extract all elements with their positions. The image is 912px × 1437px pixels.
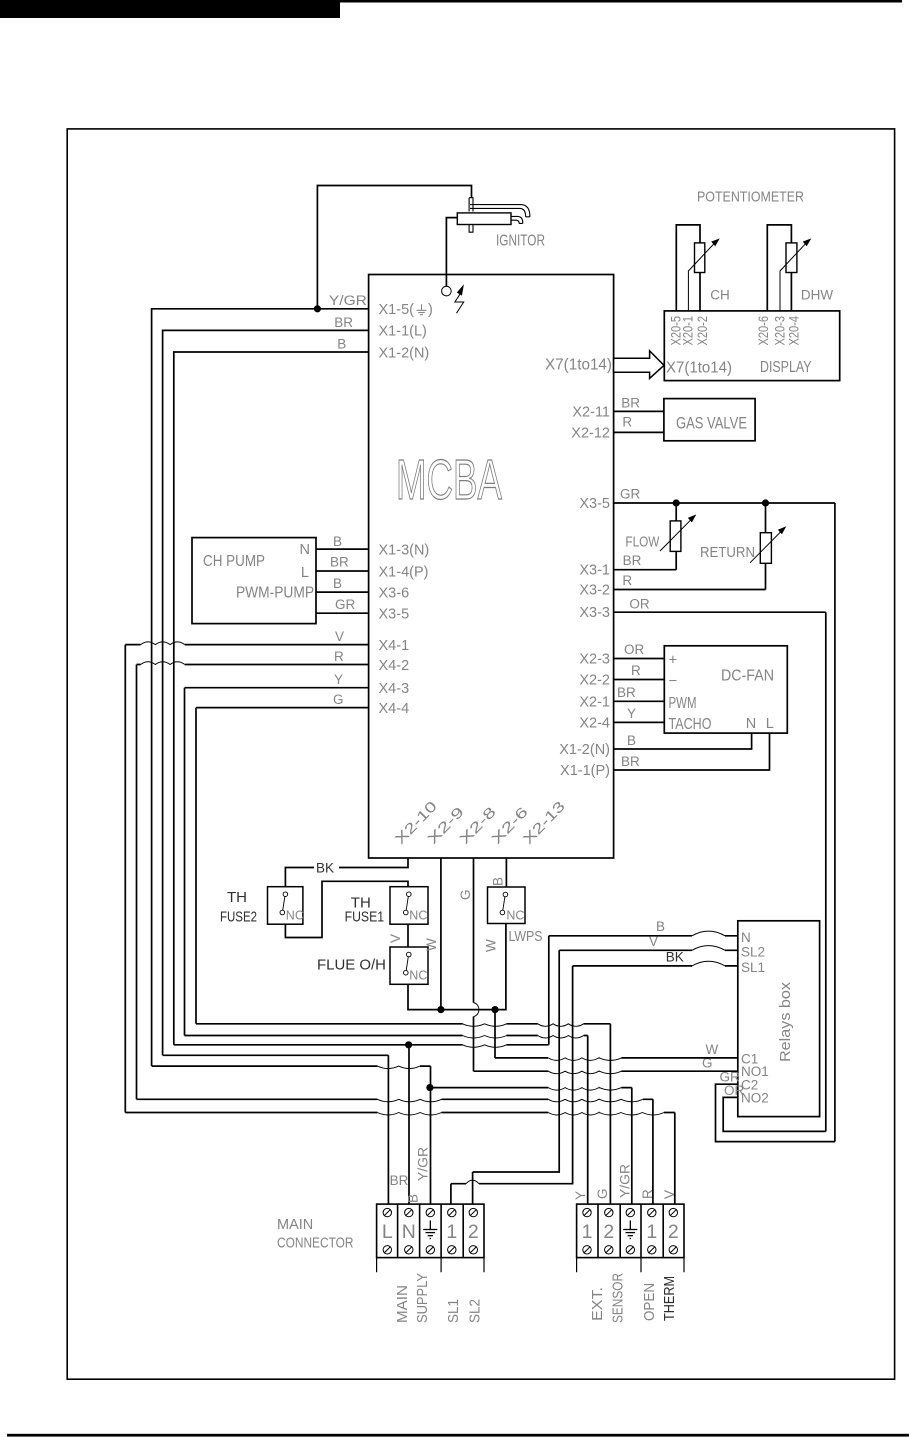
svg-text:X20-4: X20-4 — [787, 316, 802, 346]
svg-text:X4-2: X4-2 — [379, 658, 410, 674]
svg-text:Y/GR: Y/GR — [329, 293, 367, 308]
wire X2-9 W — [440, 858, 442, 1010]
ignitor right tube — [511, 216, 523, 223]
svg-text:X2-4: X2-4 — [579, 715, 610, 731]
wire X1-1 BR — [163, 330, 369, 1055]
svg-text:BR: BR — [330, 555, 349, 570]
wire pump GR — [316, 612, 369, 614]
wire X2-2 R — [614, 679, 665, 681]
svg-text:B: B — [337, 336, 346, 351]
label SENSOR (rotated) — [610, 1273, 627, 1323]
switch LWPS — [488, 887, 526, 924]
GAS VALVE box — [664, 399, 755, 441]
svg-text:X2-11: X2-11 — [572, 404, 610, 420]
EXT/OPEN block outline — [577, 1204, 684, 1258]
svg-text:Y/GR: Y/GR — [416, 1147, 431, 1181]
svg-text:R: R — [631, 663, 641, 678]
wire CH pot loop — [676, 225, 700, 311]
wire R vertical — [136, 665, 138, 1100]
svg-text:RETURN: RETURN — [700, 544, 755, 561]
svg-text:X3-6: X3-6 — [379, 585, 410, 601]
terminal screw — [583, 1208, 591, 1216]
svg-text:Y: Y — [627, 706, 636, 721]
svg-text:V: V — [662, 1190, 677, 1199]
svg-text:1: 1 — [582, 1221, 593, 1243]
wire C2 GR return — [716, 1084, 835, 1141]
wire G bottom run — [196, 1023, 610, 1025]
wire FLOW sensor top — [675, 503, 677, 521]
label V (rotated) — [388, 934, 403, 943]
svg-text:X2-3: X2-3 — [579, 652, 610, 668]
node Y/GR junction — [314, 305, 321, 312]
svg-text:BR: BR — [621, 754, 640, 769]
svg-text:BK: BK — [316, 860, 334, 875]
svg-text:B: B — [333, 576, 342, 591]
label Y/GR (rotated) — [416, 1147, 431, 1181]
terminal screw — [648, 1246, 656, 1254]
ignitor electrode pin bar — [469, 198, 473, 233]
pin label X20-5 (rotated) — [669, 316, 684, 346]
svg-text:NC: NC — [409, 969, 427, 983]
wire relays SL2 / V — [559, 949, 738, 951]
wire FUSE1 to FLUE O/H — [407, 924, 409, 947]
wire C1 W branch — [494, 1010, 496, 1058]
svg-text:NC: NC — [506, 909, 524, 923]
label SL1 (rotated) — [445, 1299, 462, 1323]
node LWPS branch junction — [491, 1006, 498, 1013]
svg-text:MAIN: MAIN — [394, 1285, 411, 1323]
terminal divider — [419, 1204, 421, 1258]
svg-text:EXT.: EXT. — [589, 1287, 606, 1321]
pin label X20-3 (rotated) — [772, 316, 787, 346]
terminal screw — [605, 1246, 613, 1254]
node return junction — [762, 499, 769, 506]
pin label X20-2 (rotated) — [695, 316, 710, 346]
svg-text:CH: CH — [710, 288, 730, 303]
label SUPPLY (rotated) — [414, 1273, 431, 1323]
svg-text:DHW: DHW — [801, 288, 833, 303]
wire X2-4 Y — [614, 721, 665, 723]
svg-text:OPEN: OPEN — [641, 1283, 658, 1321]
X7 ribbon arrow — [614, 351, 664, 379]
svg-text:LWPS: LWPS — [509, 928, 543, 945]
terminal divider — [397, 1204, 399, 1258]
svg-text:MCBA: MCBA — [396, 448, 502, 512]
wire NO1 G run — [474, 1070, 738, 1072]
svg-text:N: N — [300, 542, 310, 558]
wire FUSE2 to FUSE1 — [285, 881, 408, 937]
wire Y to terminal — [587, 1036, 589, 1205]
sensor FLOW body — [670, 521, 681, 552]
svg-text:V: V — [388, 934, 403, 943]
terminal screw — [426, 1208, 434, 1216]
node X2-9 junction — [437, 1006, 444, 1013]
svg-text:R: R — [622, 415, 632, 430]
svg-text:R: R — [640, 1189, 655, 1199]
svg-text:2: 2 — [603, 1221, 614, 1243]
wire X3-5 GR — [614, 502, 835, 504]
svg-text:): ) — [428, 302, 433, 318]
svg-text:X7(1to14): X7(1to14) — [545, 357, 612, 374]
svg-text:X2-2: X2-2 — [579, 673, 610, 689]
svg-text:L: L — [766, 716, 774, 732]
svg-text:FUSE1: FUSE1 — [345, 908, 385, 925]
terminal screw — [383, 1208, 391, 1216]
wire relays SL1 / BK — [573, 965, 738, 967]
bottom page rule — [7, 1434, 909, 1437]
label W (rotated) — [424, 938, 439, 951]
svg-text:Y: Y — [334, 672, 343, 687]
terminal screw — [648, 1208, 656, 1216]
wire B bottom run — [174, 1044, 549, 1046]
svg-text:PWM: PWM — [669, 695, 697, 712]
svg-text:N: N — [741, 930, 751, 945]
DISPLAY box — [664, 311, 839, 381]
label Y (rotated) — [573, 1191, 588, 1200]
wire C1 W run — [495, 1057, 738, 1059]
svg-text:B: B — [627, 733, 636, 748]
svg-text:X1-4(P): X1-4(P) — [379, 564, 429, 580]
svg-text:X2-12: X2-12 — [571, 425, 610, 441]
CH PUMP box — [192, 538, 316, 624]
wire FLUE O/H bottom run — [408, 924, 506, 1010]
TH FUSE2 contacts — [283, 892, 288, 897]
label B (rotated) — [490, 877, 505, 886]
svg-text:FLUE O/H: FLUE O/H — [317, 956, 386, 973]
svg-text:NO2: NO2 — [741, 1091, 769, 1106]
svg-text:MAIN: MAIN — [277, 1217, 313, 1233]
wire SL2 terminal drop — [472, 1172, 474, 1204]
wire Y bottom run — [185, 1035, 588, 1037]
svg-text:BR: BR — [623, 553, 642, 568]
sensor RETURN body — [760, 533, 771, 564]
CH wiper arrowhead — [711, 238, 720, 246]
svg-text:L: L — [301, 565, 309, 581]
svg-text:SL2: SL2 — [467, 1299, 484, 1323]
label MAIN (rotated) — [394, 1285, 411, 1323]
svg-text:B: B — [406, 1194, 421, 1203]
pin label X20-4 (rotated) — [787, 316, 802, 346]
DHW wiper arrowhead — [803, 238, 812, 246]
svg-text:SUPPLY: SUPPLY — [414, 1273, 431, 1323]
ignitor top electrode tube — [470, 205, 530, 217]
svg-text:CH PUMP: CH PUMP — [203, 553, 265, 570]
svg-text:X20-2: X20-2 — [695, 316, 710, 346]
wire X2-8 G upper — [473, 858, 475, 1003]
svg-text:G: G — [458, 889, 473, 900]
wire X2-3 OR — [614, 658, 665, 660]
terminal screw — [469, 1246, 477, 1254]
label SL2 (rotated) — [467, 1299, 484, 1323]
terminal screw — [669, 1208, 677, 1216]
wire Y/GR branch to EXT earth — [431, 1087, 632, 1089]
wire fan N / B — [614, 733, 752, 749]
svg-text:PWM-PUMP: PWM-PUMP — [236, 585, 314, 602]
svg-text:−: − — [669, 673, 678, 690]
svg-text:2: 2 — [668, 1221, 679, 1243]
wire SL1 terminal drop — [450, 1184, 452, 1204]
wire NO2 OR return — [723, 1097, 826, 1131]
terminal earth symbol — [429, 1221, 431, 1230]
wire X2-11 BR — [614, 410, 664, 412]
svg-text:DC-FAN: DC-FAN — [721, 668, 774, 685]
wire G vertical — [195, 708, 197, 1024]
wire X2-8 G lower (to NO1) — [473, 1017, 475, 1072]
pin label X2-10 (rotated) — [392, 799, 440, 848]
svg-text:G: G — [333, 692, 344, 707]
terminal divider — [462, 1204, 464, 1258]
svg-text:Y: Y — [573, 1191, 588, 1200]
wire X1-2 B — [174, 352, 369, 1045]
terminal screw — [448, 1208, 456, 1216]
svg-text:X1-3(N): X1-3(N) — [379, 542, 430, 558]
wire DHW pot loop — [767, 225, 791, 311]
wire V to OPEN THERM 2 — [674, 1113, 676, 1205]
terminal divider — [440, 1204, 442, 1258]
MCBA controller box U1 — [369, 275, 614, 859]
terminal screw — [405, 1246, 413, 1254]
wire R bottom run — [137, 1098, 653, 1100]
spark terminal circle — [442, 286, 452, 296]
label G (rotated) — [595, 1188, 610, 1199]
switch FLUE O/H — [390, 947, 428, 984]
wire X2-12 R — [614, 431, 664, 433]
svg-text:L: L — [382, 1221, 393, 1243]
svg-text:1: 1 — [446, 1221, 457, 1243]
svg-text:V: V — [649, 934, 658, 949]
svg-text:Relays box: Relays box — [777, 981, 794, 1062]
wire X4-4 G — [196, 707, 369, 709]
svg-text:DISPLAY: DISPLAY — [760, 359, 812, 376]
pin label X2-9 (rotated) — [425, 804, 468, 847]
RETURN wiper arrowhead — [778, 526, 787, 534]
terminal screw — [426, 1246, 434, 1254]
svg-text:X1-2(N): X1-2(N) — [379, 345, 430, 361]
terminal divider — [640, 1204, 642, 1258]
wire G to terminal — [609, 1024, 611, 1204]
wire V vertical — [124, 645, 126, 1113]
wire SL2 drop — [473, 950, 560, 1172]
wire X2-1 BR — [614, 700, 665, 702]
terminal screw — [583, 1246, 591, 1254]
wire R to OPEN THERM 1 — [652, 1099, 654, 1204]
wire BR bottom run — [163, 1054, 389, 1056]
ignitor body — [457, 213, 511, 225]
label THERM (rotated) — [661, 1276, 678, 1321]
svg-text:B: B — [490, 877, 505, 886]
svg-text:X3-3: X3-3 — [579, 605, 610, 621]
svg-text:GAS VALVE: GAS VALVE — [676, 415, 747, 433]
wire GR vertical (to C2) — [834, 503, 836, 1142]
wire RETURN wiper — [750, 531, 782, 563]
terminal screw — [626, 1246, 634, 1254]
wire X4-2 R — [137, 664, 369, 666]
label Relays box (rotated) — [777, 981, 794, 1062]
bracket EXT SENSOR / OPEN THERM — [577, 1258, 684, 1273]
wire SL1 drop — [451, 966, 573, 1184]
svg-text:X4-1: X4-1 — [379, 638, 410, 654]
wire pump PWM/B — [316, 591, 369, 593]
wire OR vertical (to NO2) — [825, 612, 827, 1131]
wire X2-6 B — [505, 858, 507, 887]
wire EXT earth drop — [631, 1088, 633, 1205]
potentiometer CH body — [695, 243, 705, 273]
wire fan L / BR — [614, 733, 770, 770]
svg-text:NC: NC — [286, 909, 304, 923]
svg-text:FLOW: FLOW — [625, 533, 660, 550]
svg-text:X3-5: X3-5 — [579, 496, 610, 512]
terminal screw — [605, 1208, 613, 1216]
svg-text:X7(1to14): X7(1to14) — [666, 360, 732, 377]
svg-text:GR: GR — [620, 486, 641, 501]
svg-text:NC: NC — [409, 909, 427, 923]
wire N drop to B wire — [548, 936, 550, 1045]
wire X3-2 R — [614, 563, 766, 589]
svg-text:V: V — [335, 629, 344, 644]
label V (rotated) — [662, 1190, 677, 1199]
wire ignitor to spark terminal — [446, 218, 457, 287]
svg-text:BR: BR — [334, 315, 353, 330]
svg-text:FUSE2: FUSE2 — [220, 908, 257, 925]
svg-text:G: G — [595, 1188, 610, 1199]
label W (rotated) — [483, 939, 498, 952]
svg-text:B: B — [333, 534, 342, 549]
svg-text:X1-1(P): X1-1(P) — [560, 763, 610, 779]
FLOW wiper arrowhead — [688, 514, 697, 522]
svg-text:SL2: SL2 — [741, 944, 765, 959]
wire CH pot wiper — [688, 242, 715, 311]
svg-text:CONNECTOR: CONNECTOR — [277, 1235, 354, 1251]
svg-text:X3-2: X3-2 — [579, 583, 610, 599]
svg-text:BK: BK — [666, 950, 684, 965]
pin label X2-8 (rotated) — [457, 804, 500, 847]
FLUE O/H contacts — [407, 952, 412, 957]
label B (rotated) — [406, 1194, 421, 1203]
svg-text:OR: OR — [629, 597, 650, 612]
MAIN CONNECTOR block outline — [377, 1204, 484, 1258]
svg-text:X20-3: X20-3 — [772, 316, 787, 346]
pin label X2-13 (rotated) — [520, 799, 568, 848]
black header bar — [0, 0, 340, 18]
svg-text:SENSOR: SENSOR — [610, 1273, 627, 1323]
node flow junction — [673, 499, 680, 506]
svg-text:X20-6: X20-6 — [756, 316, 771, 346]
svg-text:X4-4: X4-4 — [379, 701, 410, 717]
svg-text:N: N — [746, 716, 756, 732]
svg-text:TACHO: TACHO — [669, 716, 712, 733]
label R (rotated) — [640, 1189, 655, 1199]
terminal earth symbol — [629, 1221, 631, 1230]
svg-text:SL1: SL1 — [741, 960, 765, 975]
svg-text:N: N — [402, 1221, 416, 1243]
svg-text:W: W — [483, 939, 498, 952]
svg-text:BR: BR — [621, 395, 640, 410]
thin header rule — [340, 0, 902, 3]
terminal screw — [448, 1246, 456, 1254]
svg-text:X4-3: X4-3 — [379, 681, 410, 697]
pin label X1-5(⏚) — [379, 302, 433, 318]
switch TH FUSE2 — [268, 887, 303, 925]
svg-text:TH: TH — [227, 889, 247, 906]
wire X3-1 BR — [614, 551, 677, 569]
terminal divider — [619, 1204, 621, 1258]
wire X4-3 Y — [185, 687, 369, 689]
svg-text:X3-5: X3-5 — [379, 607, 410, 623]
svg-text:W: W — [706, 1042, 719, 1057]
wire DHW pot wiper — [780, 242, 807, 311]
svg-text:X1-1(L): X1-1(L) — [379, 324, 427, 340]
svg-text:IGNITOR: IGNITOR — [496, 233, 545, 250]
label EXT. (rotated) — [589, 1287, 606, 1321]
wire pump N/B — [316, 548, 369, 550]
terminal screw — [669, 1246, 677, 1254]
svg-text:BR: BR — [617, 685, 636, 700]
wire X1-5 Y/GR — [152, 309, 369, 1066]
terminal divider — [597, 1204, 599, 1258]
svg-text:X2-1: X2-1 — [579, 694, 610, 710]
svg-text:OR: OR — [724, 1083, 745, 1098]
wire X3-3 OR — [614, 611, 826, 613]
node earth branch junction — [426, 1084, 433, 1091]
DC-FAN box — [664, 646, 787, 733]
pin label X20-6 (rotated) — [756, 316, 771, 346]
wire earth terminal drop — [430, 1066, 432, 1204]
pin label X20-1 (rotated) — [681, 316, 696, 346]
label Y/GR (rotated) — [618, 1164, 633, 1198]
X2-8 hop over flue run — [474, 1003, 479, 1017]
TH FUSE1 contacts — [407, 892, 412, 897]
bracket MAIN SUPPLY — [377, 1258, 484, 1273]
svg-text:X20-1: X20-1 — [681, 316, 696, 346]
svg-text:Y/GR: Y/GR — [618, 1164, 633, 1198]
wire RETURN top — [765, 503, 767, 533]
Relays box — [738, 921, 820, 1117]
switch TH FUSE1 — [390, 887, 428, 925]
terminal divider — [662, 1204, 664, 1258]
svg-text:GR: GR — [335, 597, 356, 612]
svg-text:X1-2(N): X1-2(N) — [559, 742, 610, 758]
svg-text:SL1: SL1 — [445, 1299, 462, 1323]
wire relays N / B — [549, 935, 738, 937]
wire N terminal drop — [408, 1045, 410, 1204]
svg-text:+: + — [669, 651, 678, 668]
wire X2-10 BK — [285, 858, 408, 887]
svg-text:X3-1: X3-1 — [579, 563, 610, 579]
svg-text:OR: OR — [624, 642, 645, 657]
terminal screw — [469, 1208, 477, 1216]
svg-text:R: R — [334, 649, 344, 664]
svg-text:B: B — [656, 919, 665, 934]
spark arrow symbol — [455, 293, 464, 313]
wire Y/GR bottom run — [152, 1065, 431, 1067]
svg-text:1: 1 — [646, 1221, 657, 1243]
svg-text:R: R — [622, 573, 632, 588]
diagram border frame — [67, 129, 894, 1379]
svg-text:POTENTIOMETER: POTENTIOMETER — [697, 190, 804, 206]
svg-text:2: 2 — [468, 1221, 479, 1243]
pin label X2-6 (rotated) — [489, 804, 532, 847]
potentiometer DHW body — [786, 243, 797, 273]
label OPEN (rotated) — [641, 1283, 658, 1321]
svg-text:X1-5(: X1-5( — [379, 302, 415, 318]
wire X4-1 V — [125, 644, 368, 646]
svg-text:W: W — [424, 938, 439, 951]
terminal screw — [626, 1208, 634, 1216]
label G (rotated) — [458, 889, 473, 900]
terminal screw — [405, 1208, 413, 1216]
wire FLOW wiper — [660, 519, 692, 551]
svg-text:BR: BR — [390, 1173, 409, 1188]
